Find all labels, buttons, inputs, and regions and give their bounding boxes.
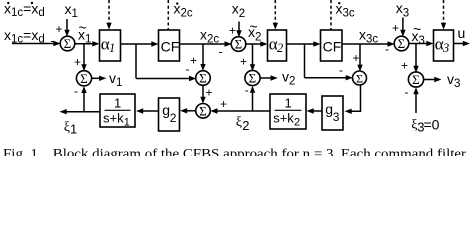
svg-text:Σ: Σ [235, 37, 243, 52]
dashed output xdot_3c up from CF2 [330, 0, 332, 30]
svg-text:CF: CF [161, 39, 180, 55]
wire xi_2 line from 1/(s+k2) into T2b with tap up to V2 [210, 86, 270, 114]
svg-text:ξ: ξ [236, 115, 242, 130]
summing junction T2 (x2c - alpha1) [196, 71, 211, 86]
label x_2c [200, 27, 219, 46]
dashed output xdot_2c up from CF1 [167, 0, 169, 30]
svg-text:~: ~ [413, 21, 421, 37]
svg-text:+: + [392, 21, 399, 35]
dashed feedforward into alpha1 [106, 0, 111, 30]
label xtilde_1 [78, 20, 91, 46]
svg-text:1: 1 [114, 96, 121, 111]
svg-text:+: + [206, 86, 213, 100]
wire x_1 down into S1 [64, 19, 69, 37]
summing junction V2 [245, 70, 260, 85]
summing junction T3 (x3c - alpha2) [353, 71, 367, 85]
svg-text:3: 3 [333, 110, 340, 124]
wire T2b output into g2 [180, 108, 196, 113]
wire input x_1c into S1 [12, 41, 61, 46]
svg-text:Σ: Σ [356, 71, 363, 85]
wire g2 output into 1/(s+k1) [136, 108, 159, 113]
label v_2 [282, 69, 295, 88]
label xdot_2c [174, 1, 193, 20]
label xi_1 [64, 120, 77, 137]
svg-text:Σ: Σ [398, 36, 406, 51]
wire S1 to alpha1 with tap down to V1 [75, 41, 100, 71]
svg-text:-: - [186, 62, 190, 76]
svg-text:Fig. 1. Block diagram of the: Fig. 1. Block diagram of the CFBS approa… [3, 146, 467, 156]
block alpha1 [100, 30, 121, 61]
wire T2 down into T2b [200, 85, 205, 103]
svg-text:=0: =0 [424, 117, 440, 133]
svg-text:2: 2 [277, 41, 283, 55]
svg-text:1: 1 [70, 122, 77, 137]
svg-text:2: 2 [170, 111, 177, 125]
svg-text:1: 1 [285, 96, 292, 111]
svg-text:-: - [385, 42, 389, 56]
label x_1c = x_d [4, 27, 45, 46]
wire CF1 to S2 with branch down to T2 [180, 41, 232, 71]
svg-text:u: u [458, 25, 466, 41]
label v_1 [109, 70, 122, 89]
block CF2 [321, 30, 343, 61]
block CF1 [159, 30, 180, 61]
wire xi_3 = 0 up into V3 [413, 87, 418, 113]
wire v_1 output [92, 76, 107, 81]
summing junction V3 [408, 72, 423, 87]
svg-text:Σ: Σ [412, 72, 420, 87]
svg-text:+: + [220, 97, 227, 111]
svg-text:+: + [190, 54, 197, 68]
svg-text:-: - [405, 85, 409, 99]
label xtilde_3 [412, 21, 425, 47]
label x_1 top [65, 1, 78, 20]
summing junction S2 [231, 37, 246, 52]
svg-text:1: 1 [124, 117, 130, 129]
wire v_2 output [260, 75, 278, 80]
svg-text:Σ: Σ [80, 71, 88, 86]
svg-text:Σ: Σ [64, 36, 72, 51]
wire v_3 output [424, 77, 442, 82]
label x_2 top [232, 1, 245, 21]
summing junction T2b [196, 103, 211, 118]
label xi_3 = 0 [411, 117, 439, 135]
block 1/(s+k2) [270, 94, 306, 129]
svg-text:2: 2 [294, 117, 300, 129]
svg-text:+: + [229, 24, 236, 38]
wire xi_1 line from 1/(s+k1) leftward with tap up to V1 [60, 86, 101, 114]
svg-text:s+k: s+k [103, 111, 124, 126]
summing junction V1 [76, 71, 91, 86]
svg-text:1: 1 [109, 41, 115, 55]
label x_3c [359, 27, 378, 46]
svg-text:Σ: Σ [199, 103, 207, 118]
wire alpha2 to CF2 with tap down to T3 row [287, 41, 353, 80]
label xdot_3c [336, 1, 355, 20]
svg-text:CF: CF [323, 39, 342, 55]
svg-text:Σ: Σ [199, 71, 207, 86]
label x_3 top [396, 0, 409, 20]
svg-text:+: + [240, 55, 247, 69]
svg-text:+: + [56, 22, 63, 36]
svg-text:3: 3 [442, 41, 449, 55]
wire T3 down and left into g3 [345, 85, 361, 114]
block alpha3 [434, 30, 454, 61]
wire S2 to alpha2 with tap down to V2 [246, 41, 268, 71]
wire alpha1 to CF1 with tap down to T2 row [121, 41, 197, 81]
block alpha2 [268, 30, 287, 61]
block 1/(s+k1) [100, 94, 135, 129]
svg-text:-: - [74, 84, 78, 98]
wire x_3 down into S3 [400, 18, 405, 37]
wire x_2 down into S2 [236, 22, 241, 38]
dashed feedforward into alpha3 [441, 0, 446, 30]
svg-text:-: - [245, 83, 249, 97]
wire u output [454, 41, 471, 46]
svg-text:Σ: Σ [249, 71, 257, 86]
label xtilde_2 [248, 19, 261, 44]
svg-text:+: + [353, 51, 360, 65]
svg-text:~: ~ [79, 20, 87, 36]
dashed feedforward into alpha2 [273, 0, 278, 30]
svg-text:-: - [51, 33, 55, 47]
svg-text:s+k: s+k [273, 111, 294, 126]
svg-text:+: + [401, 59, 408, 73]
block g2 [159, 98, 180, 131]
svg-text:+: + [74, 55, 81, 69]
svg-text:-: - [339, 63, 343, 77]
block g3 [322, 96, 343, 130]
wire S3 to alpha3 with tap down to V3 [409, 41, 434, 73]
label xdot_1c = xdot_d [4, 1, 45, 20]
label xi_2 [236, 115, 250, 133]
summing junction S1 [60, 36, 75, 51]
svg-text:2: 2 [242, 118, 249, 133]
svg-text:-: - [219, 45, 223, 59]
wire CF2 to S3 with branch down to T3 [342, 41, 395, 71]
summing junction S3 [394, 36, 409, 51]
label v_3 [447, 71, 460, 90]
wire g3 output into 1/(s+k2) [307, 108, 323, 113]
svg-text:~: ~ [250, 19, 258, 35]
